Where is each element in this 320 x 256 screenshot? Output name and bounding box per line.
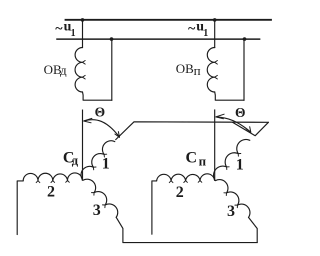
svg-text:п: п [194, 63, 201, 78]
svg-text:Θ: Θ [235, 105, 246, 120]
svg-text:1: 1 [71, 28, 76, 39]
svg-text:1: 1 [102, 156, 110, 173]
svg-text:Θ: Θ [95, 105, 106, 120]
svg-text:ОВ: ОВ [176, 61, 194, 76]
svg-text:1: 1 [203, 28, 208, 39]
svg-text:1: 1 [236, 157, 244, 174]
svg-text:~: ~ [55, 21, 63, 36]
svg-text:3: 3 [93, 202, 101, 219]
svg-text:~: ~ [188, 21, 196, 36]
svg-text:д: д [72, 154, 79, 168]
svg-text:С: С [186, 150, 198, 167]
svg-text:2: 2 [47, 183, 55, 200]
svg-text:3: 3 [227, 203, 235, 220]
svg-text:д: д [60, 63, 67, 78]
svg-text:п: п [199, 154, 207, 169]
svg-text:2: 2 [176, 184, 184, 201]
